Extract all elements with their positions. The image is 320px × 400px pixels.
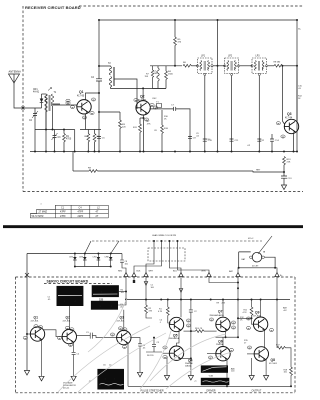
svg-text:C14: C14 — [275, 140, 280, 142]
waveform photo W1 — [201, 365, 228, 372]
svg-text:47PF: 47PF — [60, 211, 66, 214]
svg-text:OSC: OSC — [152, 98, 157, 100]
capacitor C11 — [230, 139, 234, 141]
resistor R3 — [94, 130, 96, 134]
svg-text:2N404A/DA: 2N404A/DA — [169, 337, 180, 340]
wire Q1 collector to Q2 — [44, 330, 63, 337]
capacitor C5 — [130, 338, 142, 372]
svg-text:Q9: Q9 — [255, 310, 260, 314]
svg-text:Q5: Q5 — [173, 334, 178, 338]
svg-text:417-801: 417-801 — [269, 363, 278, 365]
capacitor C9 servo — [146, 338, 162, 352]
ground — [164, 376, 169, 381]
connector wires — [146, 241, 154, 273]
svg-text:Q7: Q7 — [218, 309, 223, 313]
svg-text:C6: C6 — [103, 364, 106, 366]
capacitor C5 — [97, 137, 101, 139]
svg-text:R10: R10 — [164, 128, 169, 130]
svg-text:ANTENNA: ANTENNA — [9, 70, 22, 74]
svg-text:LP1: LP1 — [201, 56, 206, 58]
trimmer capacitor C3 — [53, 130, 57, 152]
svg-text:BAT: BAT — [229, 270, 234, 273]
main bus y=151.5 — [30, 151, 297, 153]
lead label — [66, 99, 70, 102]
cable pointer — [258, 236, 272, 254]
svg-text:T2: T2 — [108, 63, 111, 65]
svg-text:100: 100 — [125, 263, 129, 265]
rail y=129.5 — [35, 129, 75, 131]
wire left vertical x=99 — [98, 20, 100, 152]
resistor R2 — [146, 300, 152, 319]
svg-text:100: 100 — [231, 371, 235, 373]
capacitor C7 — [149, 107, 190, 152]
ground — [281, 185, 286, 190]
svg-text:C3: C3 — [58, 137, 62, 139]
svg-text:Q3: Q3 — [120, 315, 125, 319]
svg-text:C1: C1 — [61, 206, 65, 209]
resistor R2 — [87, 130, 89, 134]
svg-text:BLU: BLU — [173, 271, 177, 273]
capacitor C14 — [270, 134, 274, 152]
wire T1 legs — [46, 104, 60, 130]
wire drops into board — [125, 277, 127, 300]
ground — [137, 372, 142, 377]
svg-text:C9: C9 — [157, 342, 160, 344]
IF can LP2 — [224, 56, 240, 76]
wire Q2 base cap C3 — [76, 333, 117, 339]
resistor R8 — [268, 65, 274, 67]
svg-text:415-C: 415-C — [248, 238, 254, 240]
transistor Q4 — [169, 346, 183, 360]
svg-text:417-801: 417-801 — [31, 320, 40, 322]
IF can LP3 — [251, 56, 268, 76]
IF can LP1 — [196, 56, 213, 76]
diode CR8 — [110, 253, 112, 255]
wire can verticals — [217, 20, 219, 152]
svg-text:R9: R9 — [88, 167, 92, 169]
resistor R13 — [283, 157, 286, 165]
svg-text:470: 470 — [178, 42, 182, 44]
wire T2 secondary to Q2 — [114, 79, 137, 109]
svg-text:LP3: LP3 — [256, 56, 261, 58]
resistor R5 — [174, 20, 176, 37]
svg-text:R6: R6 — [183, 62, 187, 64]
svg-text:4A-81: 4A-81 — [33, 91, 40, 94]
resistor R10 — [161, 110, 163, 125]
bottom rail — [128, 385, 291, 387]
svg-text:R11: R11 — [133, 127, 138, 129]
svg-text:Q1: Q1 — [34, 315, 39, 319]
wire motor drops — [238, 268, 277, 273]
svg-text:47K: 47K — [147, 123, 151, 125]
svg-text:47PF: 47PF — [78, 211, 84, 214]
svg-text:47K: 47K — [149, 310, 153, 312]
resistor R6 — [183, 64, 191, 67]
svg-text:LEAD WIRE COLOR PR: LEAD WIRE COLOR PR — [152, 234, 176, 237]
svg-text:B+: B+ — [280, 275, 283, 277]
svg-text:100: 100 — [121, 292, 125, 294]
svg-text:Q1: Q1 — [79, 90, 84, 94]
svg-text:C2: C2 — [194, 311, 197, 313]
resistor R18 — [290, 367, 293, 375]
waveform photo W2 — [201, 378, 230, 385]
svg-text:CR7: CR7 — [93, 257, 98, 259]
wire Q9 emitter to Q8 — [264, 330, 266, 348]
wire Q7 emitter to Q6 — [225, 331, 227, 337]
scan swirl artifacts — [58, 298, 232, 392]
receiver board dashed border — [23, 6, 303, 192]
svg-text:100: 100 — [284, 372, 288, 374]
wire Q1 collector — [86, 93, 100, 100]
svg-text:LP2: LP2 — [228, 56, 233, 58]
svg-text:415-11: 415-11 — [63, 387, 70, 389]
AGC resistor line — [73, 170, 89, 172]
wire Q1 emitter — [85, 114, 87, 130]
svg-text:ORN: ORN — [201, 271, 206, 273]
svg-text:+6V: +6V — [283, 310, 287, 312]
svg-text:417-89: 417-89 — [252, 266, 259, 268]
diode CR5 — [74, 253, 76, 255]
wire antenna lead — [14, 83, 42, 108]
svg-text:Q3: Q3 — [287, 112, 292, 116]
wire — [42, 93, 47, 95]
svg-text:417-90: 417-90 — [77, 95, 85, 97]
svg-text:740: 740 — [154, 73, 158, 75]
resistor R4 — [165, 66, 167, 71]
resistor R1 servo — [167, 300, 169, 308]
wire bus drop left — [35, 112, 75, 152]
capacitor C4 — [96, 79, 102, 81]
svg-text:C11: C11 — [235, 140, 240, 142]
ground — [264, 376, 269, 381]
diode bottom rail — [75, 266, 111, 268]
ground — [24, 371, 29, 376]
svg-text:R9: R9 — [217, 303, 220, 305]
svg-text:4.7K: 4.7K — [243, 312, 248, 314]
cable dashed wire — [92, 240, 262, 242]
wire diagonals from cable — [85, 241, 119, 254]
svg-text:R6 220: R6 220 — [147, 355, 154, 357]
transformer T1 — [45, 94, 47, 103]
waveform photo B3 — [91, 301, 118, 310]
svg-text:PULSE STRETCHER: PULSE STRETCHER — [141, 389, 164, 392]
svg-text:R8 680: R8 680 — [274, 62, 282, 64]
svg-text:C7: C7 — [171, 105, 175, 107]
wire base lead to Q1 — [53, 104, 77, 106]
svg-text:OUTPUT: OUTPUT — [252, 389, 262, 392]
resistor R1 — [63, 130, 65, 134]
svg-text:+C: +C — [194, 381, 197, 383]
svg-text:27: 27 — [244, 342, 247, 344]
frequency table — [30, 205, 108, 218]
motor M1 — [239, 251, 265, 253]
capacitor C2 servo — [189, 300, 193, 332]
svg-text:DRIVER: DRIVER — [207, 389, 216, 392]
svg-text:RECEIVER CIRCUIT BOARD: RECEIVER CIRCUIT BOARD — [25, 5, 81, 10]
svg-text:1K: 1K — [164, 118, 167, 120]
svg-text:SERVO CIRCUIT BOARD: SERVO CIRCUIT BOARD — [47, 280, 89, 284]
wire Q2 emitter — [143, 115, 145, 152]
svg-text:R8 4.7K: R8 4.7K — [195, 328, 203, 330]
connector box — [148, 248, 185, 261]
capacitor C8 — [120, 254, 126, 273]
waveform photo B1 — [57, 286, 84, 306]
svg-text:BAT: BAT — [242, 258, 247, 261]
svg-text:22K: 22K — [287, 162, 291, 164]
svg-text:4T: 4T — [96, 211, 99, 214]
svg-text:CR5: CR5 — [69, 257, 74, 259]
svg-text:22PF: 22PF — [78, 215, 84, 218]
svg-text:1K: 1K — [240, 319, 243, 321]
het line — [253, 171, 284, 172]
svg-text:.1: .1 — [160, 322, 163, 324]
svg-text:C9: C9 — [193, 138, 197, 140]
svg-text:CR6: CR6 — [79, 257, 84, 259]
svg-text:.05: .05 — [298, 88, 302, 90]
svg-text:C2: C2 — [29, 120, 33, 122]
wire right vertical x=297 — [296, 20, 298, 122]
svg-text:Q8: Q8 — [271, 358, 276, 362]
svg-text:C4: C4 — [77, 354, 80, 356]
svg-text:C4: C4 — [91, 77, 95, 79]
X crossing mark — [22, 107, 25, 110]
IF rail — [150, 65, 182, 67]
ground — [188, 376, 193, 381]
capacitor C9 — [188, 137, 192, 139]
ground — [249, 376, 254, 381]
svg-text:4.7K: 4.7K — [158, 311, 163, 313]
svg-text:T1: T1 — [54, 92, 57, 94]
svg-text:15K: 15K — [145, 76, 149, 78]
svg-text:50-72 MHZ: 50-72 MHZ — [32, 215, 44, 218]
coil L2 — [157, 66, 159, 68]
resistor R8 + wire Q5 base line — [184, 330, 196, 332]
resistor R17 — [276, 300, 278, 348]
svg-text:2N404A/DA05A: 2N404A/DA05A — [210, 314, 225, 317]
svg-text:Q6: Q6 — [218, 340, 223, 344]
diode CR7 — [97, 253, 99, 255]
svg-text:BLK: BLK — [137, 271, 141, 273]
wire left drop x=27 — [26, 254, 28, 371]
capacitor C10 — [203, 139, 207, 141]
waveform photo B2 — [92, 285, 119, 297]
transistor Q5 — [169, 317, 183, 331]
board entry arrows — [124, 273, 128, 277]
svg-text:22K: 22K — [222, 303, 226, 305]
svg-text:L2: L2 — [97, 206, 100, 209]
wire Q5 emitter to Q4 — [177, 331, 180, 347]
AGC feed — [72, 152, 74, 172]
svg-text:27 MHZ: 27 MHZ — [39, 211, 48, 214]
svg-text:2T: 2T — [96, 215, 99, 218]
svg-text:1500: 1500 — [168, 74, 174, 76]
svg-text:HET: HET — [256, 170, 261, 172]
svg-text:220: 220 — [122, 127, 126, 129]
svg-text:1K: 1K — [298, 98, 301, 100]
svg-text:C8: C8 — [154, 130, 158, 132]
svg-text:.05: .05 — [143, 347, 147, 349]
transistor Q8 — [254, 347, 268, 361]
svg-text:C13: C13 — [288, 178, 293, 180]
svg-text:C3: C3 — [86, 332, 89, 334]
svg-text:27PF: 27PF — [60, 215, 66, 218]
crystal Y1 — [157, 104, 162, 108]
svg-text:RED: RED — [118, 271, 123, 273]
svg-text:.02: .02 — [196, 135, 200, 137]
svg-text:~10B: ~10B — [208, 375, 214, 377]
wire Q3 emitter — [127, 344, 129, 387]
resistor R11 — [251, 300, 253, 308]
svg-text:.05: .05 — [48, 299, 52, 301]
svg-text:B+: B+ — [298, 29, 301, 31]
svg-text:417-801: 417-801 — [63, 320, 72, 322]
svg-text:C5: C5 — [102, 138, 106, 140]
resistor R7 — [152, 66, 154, 70]
diode rail — [27, 253, 122, 255]
svg-text:R17: R17 — [276, 344, 281, 346]
wire Q3 base — [282, 66, 284, 124]
svg-text:Q2: Q2 — [140, 95, 145, 99]
wire Q3 emitter — [293, 133, 295, 152]
ground — [39, 376, 44, 381]
trimmer capacitor C2 — [33, 108, 37, 130]
svg-text:C4: C4 — [79, 206, 83, 209]
ground — [71, 376, 76, 381]
svg-text:.02: .02 — [247, 145, 251, 147]
svg-text:C12: C12 — [260, 140, 265, 142]
capacitor C13 — [281, 176, 287, 185]
servo board dashed border — [16, 277, 296, 393]
svg-text:4700: 4700 — [66, 139, 72, 141]
capacitor C12 — [257, 139, 261, 141]
svg-text:*: * — [41, 203, 43, 207]
svg-text:100: 100 — [151, 287, 155, 289]
thick divider rule — [3, 225, 303, 228]
resistor R11 — [140, 118, 144, 124]
diode CR6 — [84, 253, 86, 255]
svg-text:CR8: CR8 — [105, 257, 110, 259]
B+ rail — [126, 299, 290, 301]
svg-text:WHT: WHT — [149, 271, 154, 273]
resistor R3b — [99, 112, 120, 120]
top bus wire y=20 — [99, 19, 297, 21]
